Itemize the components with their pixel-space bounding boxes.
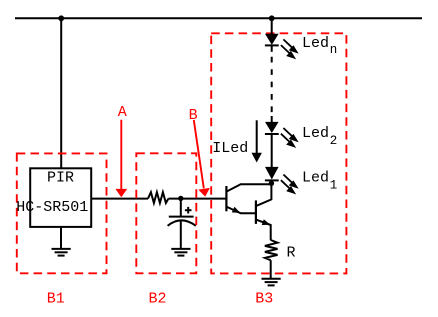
capacitor C (polarized) bbox=[168, 199, 196, 226]
junction node at LED branch bbox=[269, 15, 275, 21]
transistor Q1 (NPN, darlington input) bbox=[226, 184, 271, 213]
wire PIR to ground bbox=[60, 227, 62, 249]
wire Led_n to Led_2 (dashed = omitted LEDs) bbox=[271, 45, 273, 51]
wire PIR output to filter resistor bbox=[91, 198, 148, 200]
svg-text:n: n bbox=[330, 43, 338, 57]
resistor R zigzag bbox=[265, 240, 278, 260]
LED Led_1 bbox=[265, 167, 279, 181]
top power rail wire bbox=[15, 17, 422, 19]
block B3 dashed box bbox=[211, 33, 346, 273]
svg-text:Led: Led bbox=[302, 169, 329, 186]
svg-text:B1: B1 bbox=[47, 290, 65, 307]
emission arrows Led_2 bbox=[281, 128, 297, 146]
LED Led_n bbox=[265, 34, 279, 46]
wire Led_1 to node bbox=[271, 180, 273, 184]
ground symbol B2 bbox=[171, 249, 190, 256]
svg-text:PIR: PIR bbox=[47, 170, 74, 187]
svg-text:ILed: ILed bbox=[212, 140, 248, 157]
svg-text:HC-SR501: HC-SR501 bbox=[16, 199, 88, 216]
wire capacitor to ground bbox=[180, 221, 182, 248]
emission arrows Led_1 bbox=[281, 175, 297, 193]
block B1 dashed box bbox=[17, 153, 107, 273]
wire R to ground bbox=[270, 260, 272, 278]
LED Led_2 bbox=[265, 122, 279, 134]
transistor Q2 (NPN, darlington output) bbox=[256, 184, 272, 240]
svg-text:Led: Led bbox=[302, 125, 329, 142]
svg-text:R: R bbox=[287, 245, 296, 262]
wire rail to PIR top bbox=[60, 18, 62, 168]
Q2 emitter arrowhead bbox=[262, 219, 271, 225]
PIR sensor module HC-SR501 box bbox=[30, 168, 91, 227]
ILed current arrow bbox=[252, 120, 262, 162]
emission arrows Led_n bbox=[281, 39, 297, 57]
Q1 emitter arrowhead bbox=[232, 207, 241, 213]
junction node LED cathode / collectors bbox=[269, 181, 274, 186]
svg-text:B2: B2 bbox=[149, 290, 167, 307]
arrow B (red) bbox=[194, 120, 210, 197]
ground symbol B3 bbox=[262, 279, 281, 286]
wire rail to Led_n bbox=[271, 18, 273, 34]
block B2 dashed box bbox=[136, 153, 196, 273]
junction node dot (node B) bbox=[178, 196, 183, 201]
arrow A (red) bbox=[115, 120, 127, 198]
svg-text:2: 2 bbox=[330, 134, 338, 148]
wire resistor to transistor base bbox=[168, 198, 226, 200]
svg-text:1: 1 bbox=[330, 178, 338, 192]
wire Led_2 to Led_1 bbox=[271, 134, 273, 168]
svg-text:A: A bbox=[118, 104, 127, 121]
svg-text:B3: B3 bbox=[255, 290, 273, 307]
ground symbol B1 bbox=[52, 249, 71, 256]
svg-text:Led: Led bbox=[302, 35, 329, 52]
resistor (RC filter series) zigzag bbox=[148, 192, 168, 203]
junction node at PIR branch bbox=[58, 15, 64, 21]
